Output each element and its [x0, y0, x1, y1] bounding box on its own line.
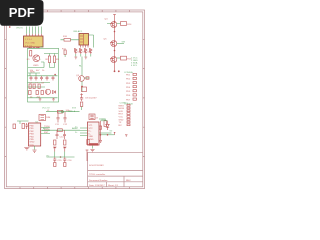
PDF badge: [0, 0, 44, 26]
ground: [32, 150, 36, 152]
svg-text:PDF: PDF: [9, 5, 35, 20]
svg-text:1 2 3 4: 1 2 3 4: [25, 39, 32, 41]
svg-text:CONN-A: CONN-A: [124, 71, 133, 74]
frame row ticks right: [143, 39, 145, 156]
resistor R7: [29, 91, 32, 95]
svg-text:D-: D-: [75, 132, 78, 134]
svg-text:VCC: VCC: [30, 144, 35, 146]
svg-text:VBU: VBU: [89, 136, 94, 138]
resistor R1: [27, 51, 32, 62]
svg-text:Document Number:: Document Number:: [89, 179, 108, 182]
svg-text:SCK: SCK: [119, 111, 124, 113]
capacitor C12: [63, 112, 68, 126]
K1 bottom pins: [81, 45, 89, 48]
reset loop wire: [101, 120, 108, 122]
capacitor C3: [40, 76, 43, 81]
resistor R8: [36, 91, 38, 95]
svg-text:AVCC: AVCC: [43, 127, 49, 130]
supply arrow VCC2: [63, 147, 67, 152]
svg-text:REV:: REV:: [126, 180, 131, 182]
rail top terminal: [113, 14, 116, 16]
wire: [117, 57, 121, 59]
wire bus into U2 from top: [27, 27, 42, 34]
wire rail: [46, 111, 80, 113]
wire: [100, 134, 115, 136]
wire: [84, 77, 89, 79]
resistor R9: [41, 91, 43, 95]
transistor Q3: [76, 75, 84, 81]
sheet frame outer: [5, 10, 145, 189]
wire link down: [81, 57, 83, 76]
junction: [114, 21, 116, 23]
node tick: [9, 26, 10, 27]
resistor R20: [99, 135, 102, 143]
stub: [114, 132, 116, 135]
ferrite L2: [58, 129, 63, 132]
capacitor C15: [53, 157, 62, 167]
transistor Q4: [105, 19, 117, 28]
wire: [117, 43, 124, 45]
wire: [50, 63, 55, 68]
frame column ticks top: [20, 10, 130, 12]
resistor R16: [13, 124, 16, 129]
wire rail 2: [42, 129, 80, 131]
transistor Q5: [104, 39, 117, 47]
wire: [81, 107, 83, 111]
resistor R22: [64, 140, 66, 145]
svg-text:Sheet: 1/1: Sheet: 1/1: [108, 184, 119, 187]
wire: [81, 81, 83, 92]
wire U3 right: [99, 132, 112, 134]
frame row ticks left: [5, 39, 7, 156]
wire: [28, 62, 44, 68]
resistor R3: [53, 56, 59, 63]
capacitor C10: [26, 123, 29, 129]
resistor R19: [99, 121, 101, 135]
svg-text:RELAY-1: RELAY-1: [74, 30, 84, 33]
title block: [88, 152, 143, 187]
junction: [81, 86, 83, 88]
junction: [107, 134, 109, 136]
ferrite L1: [47, 110, 62, 113]
wire: [28, 73, 40, 76]
svg-text:VIN 5V: VIN 5V: [16, 28, 23, 30]
diode D4: [85, 49, 88, 55]
svg-text:100n: 100n: [66, 110, 72, 112]
U2 top pins: [27, 34, 42, 36]
svg-text:Date: 1/10/2017: Date: 1/10/2017: [89, 184, 105, 187]
capacitor C1: [30, 76, 33, 81]
resistor R14: [121, 22, 133, 26]
wire: [107, 23, 121, 25]
capacitor C14: [60, 130, 67, 139]
junction: [114, 31, 116, 33]
U3 left pin wires: [80, 128, 88, 136]
diode D3: [80, 49, 83, 55]
resistor R13: [82, 87, 87, 92]
frame column ticks bottom: [20, 187, 130, 189]
crystal Y1: [39, 115, 50, 121]
wire: [89, 35, 94, 48]
resistor R11: [62, 49, 67, 55]
supply arrow VCC1: [53, 147, 57, 152]
relay K1 (top middle, yellow): [74, 30, 89, 45]
capacitor C16: [63, 157, 72, 167]
wire: [61, 39, 80, 41]
diode D1: [53, 91, 56, 94]
IC U1 (MCU): [29, 121, 41, 146]
capacitor C4: [46, 76, 49, 81]
capacitor C5 polarized: [52, 74, 57, 81]
junction: [114, 50, 116, 52]
svg-text:RST: RST: [102, 119, 107, 121]
wire: [99, 119, 105, 121]
svg-text:4 SCL: 4 SCL: [131, 65, 138, 67]
resistor R17: [22, 124, 25, 129]
wire: [28, 97, 58, 99]
junction: [61, 111, 63, 113]
transistor Q2: [45, 89, 50, 94]
ground: [74, 57, 77, 59]
U2 bottom pins: [29, 47, 39, 48]
wire: [44, 54, 58, 57]
svg-text:VCC GND: VCC GND: [25, 42, 36, 44]
ground: [84, 57, 87, 59]
transistor Q1: [33, 55, 42, 67]
svg-text:SEN: SEN: [30, 71, 35, 73]
transistor Q6: [110, 57, 117, 63]
diode D5: [90, 49, 93, 55]
resistor R2: [46, 56, 51, 63]
capacitor C13: [56, 130, 59, 139]
resistor R4: [29, 84, 31, 89]
wire rail: [28, 75, 58, 77]
junction: [60, 156, 62, 158]
ground tick: [86, 149, 89, 151]
wire: [55, 152, 65, 158]
svg-text:MISO: MISO: [119, 105, 125, 107]
resistor R12: [86, 77, 89, 79]
ground: [24, 148, 29, 150]
svg-text:VCC IO: VCC IO: [42, 108, 50, 110]
wire: [28, 83, 51, 88]
capacitor C9 polarized: [80, 93, 97, 106]
rail bottom terminals: [114, 70, 116, 72]
connector JP1: [124, 71, 136, 106]
tick mark: [125, 135, 128, 137]
ground: [90, 150, 94, 152]
wire stubs: [65, 54, 91, 57]
power rail (right chain): [114, 15, 116, 72]
svg-text:VCC: VCC: [119, 117, 124, 119]
wire: [34, 146, 36, 150]
wire stub: [86, 150, 88, 161]
connector JP2: [119, 103, 131, 127]
wire rail bottom: [47, 156, 75, 158]
svg-text:LM35: LM35: [33, 65, 39, 67]
resistor R15: [121, 56, 133, 60]
svg-text:MOSI: MOSI: [119, 108, 125, 110]
capacitor C2: [35, 76, 38, 81]
wire: [17, 121, 29, 124]
diode D2: [75, 49, 78, 55]
analog block outline: [28, 48, 59, 102]
LED D6: [106, 121, 109, 130]
svg-text:TITLE: controller: TITLE: controller: [89, 173, 105, 176]
resistor R18: [104, 121, 106, 127]
svg-text:GND: GND: [119, 119, 124, 121]
svg-text:16M: 16M: [46, 117, 50, 119]
U1 right pin wires: [41, 128, 50, 134]
ground: [52, 98, 55, 101]
junction: [100, 134, 102, 136]
crystal Y2: [89, 114, 95, 120]
IC U2 (top-left DIP, yellow): [24, 36, 44, 47]
svg-text:D-: D-: [89, 133, 92, 135]
svg-text:SCH PCB REV: SCH PCB REV: [89, 165, 104, 167]
ground: [39, 98, 42, 101]
svg-text:RST: RST: [44, 132, 49, 134]
IC U3: [88, 118, 100, 146]
resistor R5: [33, 84, 35, 89]
resistor R21: [54, 140, 56, 145]
svg-text:RST: RST: [119, 114, 124, 116]
net name list: [131, 58, 138, 68]
sheet frame inner: [6, 12, 143, 187]
svg-text:RX: RX: [119, 125, 123, 127]
svg-text:C9 10u/25V: C9 10u/25V: [85, 98, 97, 100]
wire: [92, 146, 94, 149]
wire U2 to analog block: [28, 47, 41, 49]
resistor R23: [87, 140, 89, 145]
resistor R10: [63, 36, 71, 41]
junction dots: [29, 47, 30, 48]
resistor R6: [38, 84, 40, 89]
capacitor C11: [55, 112, 60, 126]
